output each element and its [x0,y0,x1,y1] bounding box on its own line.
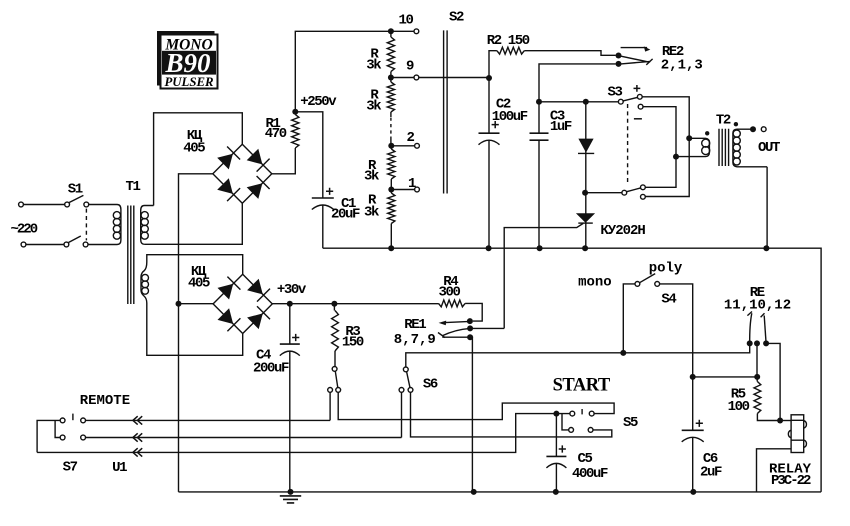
wire S4 right to C6 [660,284,693,377]
connector arrows row2 [133,433,142,441]
node T2 primary bottom [673,154,679,160]
node diode branch top [583,99,589,105]
svg-text:КУ202Н: КУ202Н [600,223,645,239]
node R5 top [693,374,761,380]
svg-text:S7: S7 [63,460,78,476]
svg-text:470: 470 [265,126,287,142]
svg-text:150: 150 [342,334,364,350]
phasing dot T2 left [705,131,709,135]
node R5 bottom [777,418,783,424]
transformer T2 secondary winding [733,129,767,167]
svg-text:S2: S2 [449,10,464,26]
node R3 top [331,301,337,307]
svg-text:300: 300 [439,285,461,301]
diode D1 [578,139,594,154]
node RE1 ground [471,489,477,495]
tap 2 [388,130,419,149]
wire T1 sec2 bottom to bridge2 AC bottom [147,303,243,355]
wire S1 to T1 bottom [88,244,117,246]
svg-text:Р3С-22: Р3С-22 [771,473,811,489]
resistor R 3k c [364,146,395,190]
svg-text:START: START [553,375,611,395]
svg-text:B90: B90 [164,48,211,78]
svg-text:OUT: OUT [758,140,780,156]
wire tap9 to R2 C2 junction [391,77,489,79]
switch S5 [562,409,638,432]
resistor R4 [439,274,483,321]
switch S7 [37,414,85,476]
ground bus [179,491,822,493]
capacitor C4 [253,304,300,492]
wire T1 sec2 top to bridge2 AC top [147,255,243,275]
switch S1 [64,181,89,247]
relay contacts RE 11 10 12 [724,285,791,346]
transformer T1 primary winding [113,205,121,245]
transformer T1 label [126,179,141,195]
wire S3 upper right to T2 [642,97,689,197]
bridge rectifier KC405 #1 label [183,128,205,157]
connector arrows row1 [133,416,142,424]
transformer T1 secondary 2 winding [141,262,149,303]
svg-text:200uF: 200uF [253,360,289,376]
wire remote row3 [37,414,570,453]
relay contact RE2 [616,44,703,73]
svg-text:20uF: 20uF [331,206,360,222]
svg-text:PULSER: PULSER [164,75,214,89]
svg-text:2: 2 [407,130,415,146]
logo MONO B90 PULSER [157,31,218,89]
label START [553,375,611,395]
label REMOTE [80,393,130,409]
svg-text:mono: mono [578,275,612,291]
wire S3 to diode branch [585,102,622,249]
resistor R2 [487,33,616,78]
transformer T1 secondary 1 winding [141,206,154,245]
phasing dot T2 right [734,122,738,126]
wire T2 to bottom rail [763,167,769,251]
wire bottom rail [323,248,821,492]
ground symbol [280,489,301,503]
switch S3 [608,85,646,200]
resistor R 3k a [366,31,394,77]
svg-text:11,10,12: 11,10,12 [724,298,791,314]
capacitor C5 [546,414,608,492]
svg-text:9: 9 [406,59,414,75]
transformer T2 label [716,113,731,129]
wire T1 sec1 top to bridge1 AC top [154,113,243,206]
node C3 ground [537,245,543,251]
tap 1 [388,176,419,193]
wire remote row1 [86,419,331,421]
transformer T2 primary winding [676,138,710,156]
bridge rectifier KC405 #2 [213,274,272,333]
wire +250v to C1 [295,112,323,198]
resistor R5 [728,377,781,421]
relay contact RE1 [394,317,473,348]
wire S6 left to row2 [401,392,403,437]
svg-text:3k: 3k [364,169,379,185]
node T2 primary top [686,135,692,141]
svg-text:8,7,9: 8,7,9 [394,332,436,348]
resistor R 3k b [366,78,394,146]
resistor R3 [332,304,364,367]
node C5 top [553,411,559,417]
wire bridge1 AC bottom to T1 sec1 bottom [144,203,242,244]
svg-text:100: 100 [728,399,750,415]
svg-text:3k: 3k [366,58,381,74]
label +30v [277,282,307,298]
svg-text:100uF: 100uF [492,109,528,125]
svg-text:3k: 3k [364,204,379,220]
node ladder bottom [388,245,394,251]
wire RE mid down [756,343,758,377]
node C5 ground [553,489,559,495]
wire R3 left to row1 [329,392,331,420]
svg-text:U1: U1 [112,460,127,476]
node thyristor ground [582,245,588,251]
svg-text:S5: S5 [623,415,638,431]
connector arrows row3 [133,448,142,456]
svg-text:S1: S1 [68,181,83,197]
wire R3 right to S5 loop [338,392,614,419]
node R2 C2 junction [486,75,492,81]
capacitor C1 [312,188,360,249]
svg-text:400uF: 400uF [572,466,608,482]
transformer T2 core [719,129,729,166]
svg-text:REMOTE: REMOTE [80,393,130,409]
wire RE1 bottom to ground [470,337,472,492]
wire +30v rail [272,303,438,305]
svg-text:S4: S4 [661,292,676,308]
wire S6 right to S5 row2 [411,392,612,437]
resistor R 3k d [364,190,395,249]
node bridge2 minus [176,301,214,307]
wire RE1 mid to gate [470,327,504,329]
wire mains top [19,202,65,207]
thyristor KU202N [504,213,645,328]
switch S4 [578,260,683,307]
transformer T1 core [128,206,134,305]
wire mains bottom [21,242,64,247]
svg-text:T2: T2 [716,113,731,129]
svg-text:+250v: +250v [300,94,337,110]
bridge rectifier KC405 #2 label [188,264,210,291]
svg-text:405: 405 [183,140,205,156]
svg-text:1: 1 [408,176,416,192]
tap 9 [388,59,419,81]
svg-text:S6: S6 [423,377,438,393]
connector R3 pair [328,367,341,393]
wire S1 to T1 top [89,204,117,206]
svg-text:T1: T1 [126,179,141,195]
svg-text:3k: 3k [366,98,381,114]
node +250v [292,94,337,115]
node C6 top [690,374,696,380]
svg-text:+30v: +30v [277,282,307,298]
node C4 top [287,301,293,307]
wire S3 lower right to T2 [643,107,676,188]
wire bridge1 minus to ground bus [179,174,213,492]
svg-text:2uF: 2uF [700,465,722,481]
wire +250v to ladder top [295,31,414,112]
svg-text:~220: ~220 [11,221,38,237]
wire RE right to R5 bottom [766,343,780,420]
svg-text:2,1,3: 2,1,3 [661,57,703,73]
label ~220 [11,221,38,237]
wire S6 top to bus [406,343,750,367]
svg-text:1uF: 1uF [550,119,572,135]
svg-text:405: 405 [188,275,210,291]
label U1 [112,460,127,476]
resistor R1 label [265,116,287,142]
node C3 top [536,99,542,105]
capacitor C6 [682,377,722,492]
switch S2 [444,10,464,194]
svg-text:RE1: RE1 [404,317,426,333]
wire C3 to S3 row [539,101,618,103]
relay coil RELAY P3C-22 [757,415,812,492]
wire remote row2 [86,437,402,439]
capacitor C2 [479,78,528,248]
node C6 ground [690,489,696,495]
svg-text:10: 10 [399,13,414,29]
svg-text:S3: S3 [608,85,623,101]
tap 10 [388,13,419,35]
wire C3 to RE2 [539,64,616,67]
capacitor C3 [530,67,572,248]
node C2 ground [486,245,492,251]
resistor R1 [272,112,299,174]
switch S6 [399,367,438,393]
node diode branch mid [582,190,588,196]
wire S4 left to bus [620,284,635,356]
bridge rectifier KC405 #1 [213,144,272,203]
svg-text:C5: C5 [578,451,593,467]
terminal OUT [750,126,780,156]
